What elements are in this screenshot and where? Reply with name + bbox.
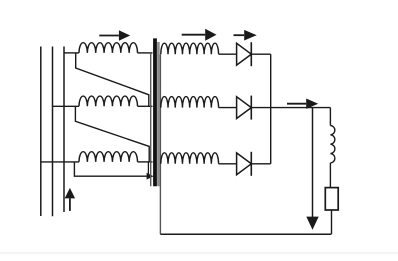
- arrow current i-w1 above primary winding 1: [99, 35, 119, 37]
- wire tap phase 2 to primary winding 2: [53, 105, 80, 107]
- phase bus line 1: [40, 47, 42, 217]
- wire winding W2 right end to core: [138, 105, 153, 107]
- diode D1 triangle: [237, 43, 252, 65]
- wire winding W3 bottom return (left drop, bottom run): [74, 162, 147, 176]
- wire S2 to diode D2: [219, 107, 237, 109]
- wire D3 cathode to bus: [251, 163, 270, 165]
- arrow output voltage Ud (down): [312, 108, 314, 217]
- wire output corner down to smoothing inductor: [329, 108, 331, 126]
- cathode bus vertical wire: [270, 54, 272, 164]
- wire D1 cathode to bus: [251, 53, 270, 55]
- primary winding W2: [79, 96, 138, 106]
- arrow up supply current i1: [69, 198, 71, 211]
- diode D3 triangle: [237, 153, 252, 175]
- phase bus line 2: [52, 47, 54, 217]
- diode D1 cathode bar: [250, 42, 252, 66]
- transformer core right lamination (gray): [157, 42, 160, 186]
- wire S1 to diode D1: [219, 53, 237, 55]
- wire inductor to resistor: [329, 163, 331, 188]
- transformer core left lamination (gray): [150, 52, 152, 186]
- wire S3 to diode D3: [219, 163, 237, 165]
- wire D2 cathode to load (output wire): [251, 107, 330, 109]
- load resistor Rd: [325, 188, 338, 210]
- arrow current i-d1 above diode D1: [234, 34, 245, 36]
- transformer core main lamination (black): [153, 38, 157, 186]
- primary winding W3: [79, 152, 138, 162]
- wire winding W3 right-end drop: [147, 162, 149, 176]
- wire zigzag link W1 left to W2 right (drop, diagonal, drop): [76, 53, 149, 106]
- wire tap phase 3 to primary winding 1: [64, 52, 79, 54]
- page bottom faint rule: [0, 252, 398, 254]
- arrow current i-s1 above secondary winding 1: [182, 34, 206, 36]
- primary winding W1: [79, 43, 138, 53]
- arrowhead current into core on W3 bottom wire: [147, 173, 154, 180]
- wire winding W3 right end to core: [138, 161, 153, 163]
- diode D2 triangle: [237, 97, 252, 119]
- wire tap phase 1 to primary winding 3: [41, 161, 79, 163]
- diode D2 cathode bar: [250, 96, 252, 120]
- diode D3 cathode bar: [250, 152, 252, 176]
- wire zigzag link W2 left to W3 right (drop, diagonal, drop): [75, 106, 149, 162]
- secondary winding S2: [161, 97, 219, 108]
- wire resistor to bottom return: [331, 210, 333, 234]
- secondary winding S1: [161, 43, 219, 54]
- secondary winding S3: [161, 153, 219, 164]
- bottom return wire: [160, 233, 331, 235]
- smoothing inductor Ld (vertical): [330, 126, 334, 163]
- wire winding W1 right end to core: [138, 52, 153, 54]
- secondary star-point vertical wire: [159, 54, 161, 234]
- arrow load current id on output wire: [287, 103, 306, 105]
- phase bus line 3: [63, 47, 65, 213]
